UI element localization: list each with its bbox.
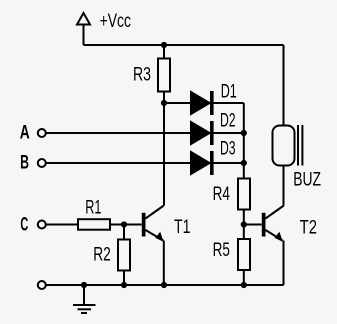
wire input A to D2: [46, 132, 191, 134]
terminal ground: [38, 281, 46, 289]
terminal B: [38, 159, 46, 167]
resistor R1: [78, 219, 110, 230]
junction node Vcc/R3: [161, 42, 167, 48]
wire D1 anode: [164, 102, 191, 104]
wire T2 collector vertical: [283, 166, 285, 206]
junction node R3/D1/collector: [161, 100, 167, 106]
resistor R3: [158, 59, 170, 92]
junction node T1 base: [121, 221, 127, 227]
svg-text:B: B: [20, 153, 29, 174]
terminal C: [38, 221, 46, 229]
svg-text:R2: R2: [93, 245, 111, 266]
wire D2 cathode: [213, 132, 244, 134]
svg-text:+Vcc: +Vcc: [100, 11, 131, 32]
diode D2: [191, 121, 214, 145]
diode D1: [191, 91, 214, 115]
resistor R4: [238, 179, 250, 210]
resistor R5: [238, 239, 250, 270]
wire R5 bottom lead: [243, 270, 245, 285]
wire input B to D3: [46, 162, 191, 164]
wire right column to buzzer: [283, 45, 285, 126]
svg-text:R1: R1: [85, 197, 101, 218]
wire R2 bottom lead: [123, 271, 125, 286]
wire T2 emitter vertical: [283, 241, 285, 286]
junction node D3 cathode: [241, 160, 247, 166]
wire D3 cathode: [213, 162, 244, 164]
transistor T2: [262, 206, 284, 242]
svg-text:C: C: [20, 215, 28, 236]
terminal A: [38, 129, 46, 137]
wire input C to R1: [46, 224, 77, 226]
wire R3 bottom lead: [163, 92, 165, 104]
wire R2 top lead: [123, 225, 125, 240]
svg-text:T1: T1: [174, 217, 191, 238]
junction node T1 emitter/ground: [161, 282, 167, 288]
wire R4 bottom lead: [243, 210, 245, 240]
junction node R5/ground: [241, 282, 247, 288]
junction node T2 base: [241, 221, 247, 227]
junction node R2/ground: [121, 282, 127, 288]
wire T2 base: [244, 224, 262, 226]
wire ground rail: [46, 284, 283, 286]
wire cathode bus: [243, 103, 245, 179]
ground symbol: [73, 285, 96, 313]
svg-text:T2: T2: [300, 218, 317, 239]
buzzer BUZ plates: [298, 125, 302, 166]
wire R1 to base node: [111, 224, 142, 226]
wire Vcc stem: [83, 25, 85, 46]
diode D3: [191, 151, 214, 175]
svg-text:D1: D1: [221, 82, 237, 103]
transistor T1: [142, 206, 164, 242]
svg-text:R4: R4: [213, 184, 231, 205]
svg-text:D3: D3: [220, 138, 236, 159]
wire T1 emitter vertical: [163, 241, 165, 286]
svg-text:A: A: [20, 123, 30, 144]
buzzer BUZ body: [273, 126, 295, 166]
+Vcc power symbol: [77, 13, 90, 25]
wire D1 cathode: [213, 102, 244, 104]
wire R3 top lead: [163, 45, 165, 59]
svg-text:BUZ: BUZ: [293, 169, 321, 190]
junction node ground symbol: [81, 282, 87, 288]
svg-text:R3: R3: [133, 65, 151, 86]
junction node D2 cathode: [241, 130, 247, 136]
svg-text:D2: D2: [220, 111, 236, 132]
wire T1 collector vertical: [163, 103, 165, 206]
resistor R2: [118, 240, 130, 271]
svg-text:R5: R5: [213, 240, 230, 261]
wire Vcc rail: [84, 44, 284, 46]
